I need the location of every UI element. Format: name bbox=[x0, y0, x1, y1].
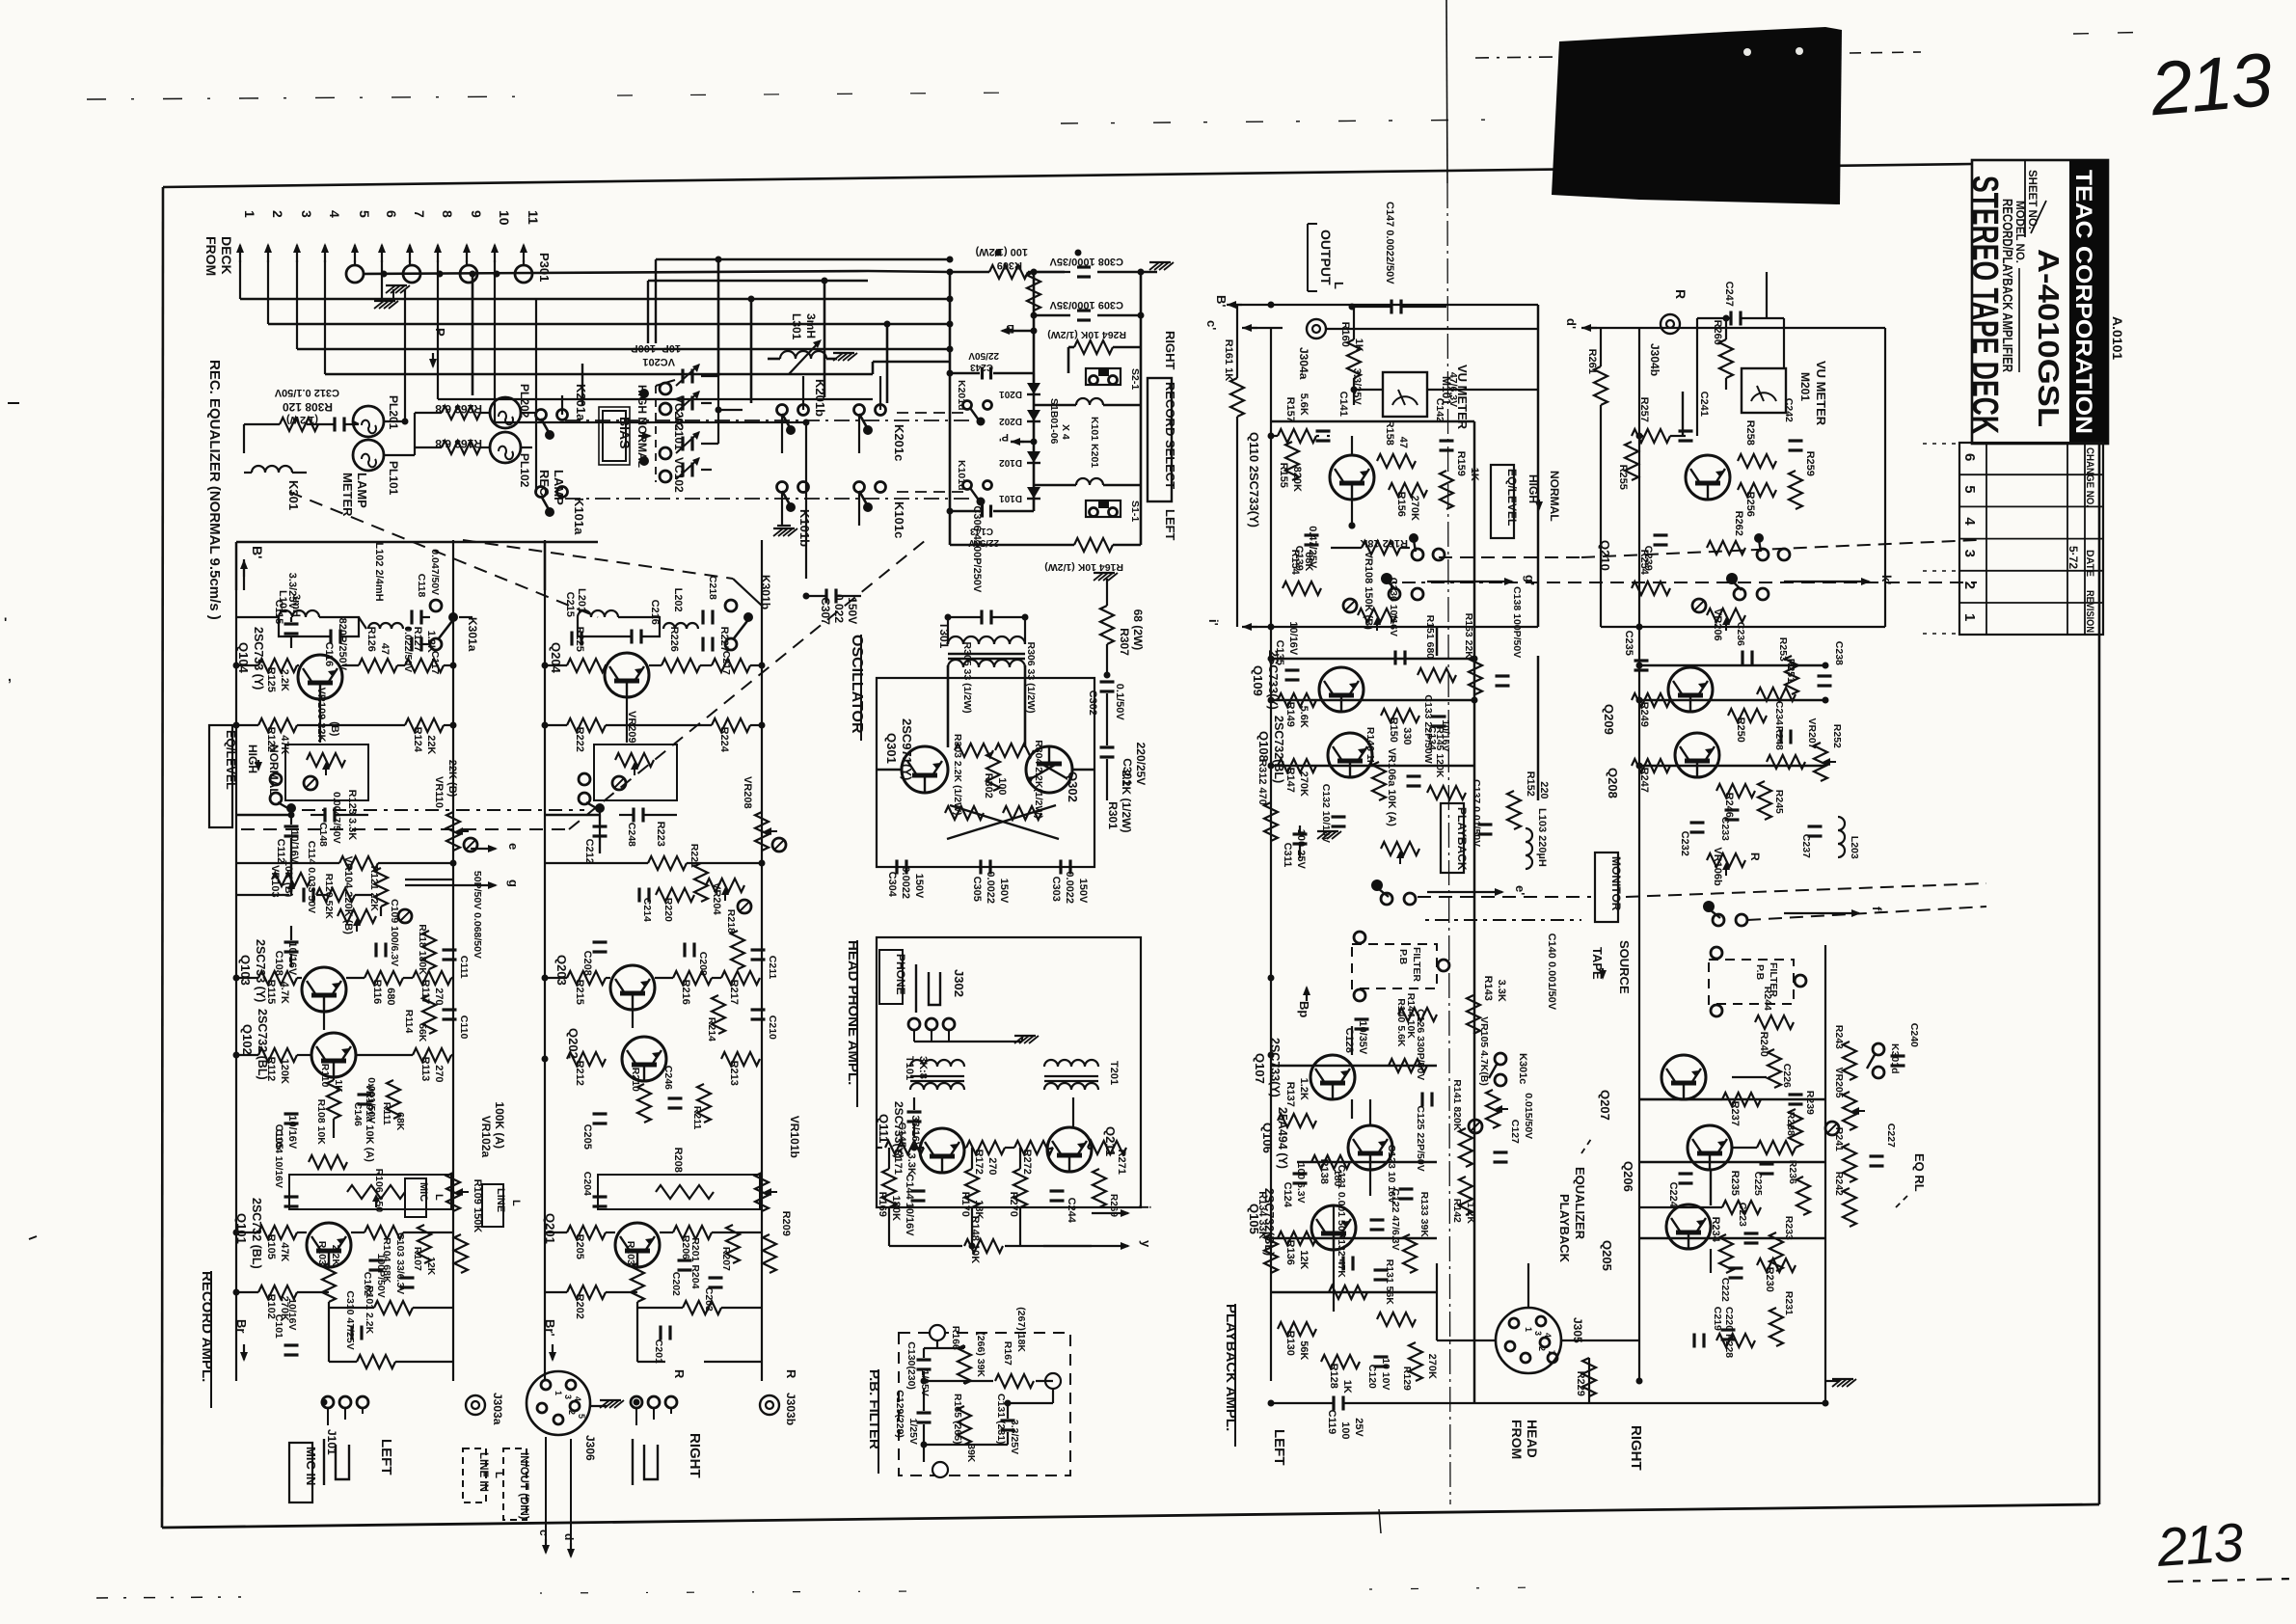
wire rec lamp wiring bbox=[415, 413, 536, 455]
resistor R226 bbox=[662, 627, 700, 672]
svg-text:R257: R257 bbox=[1638, 397, 1650, 422]
svg-text:C136 10/16V: C136 10/16V bbox=[1388, 578, 1399, 636]
svg-text:R111: R111 bbox=[381, 1102, 392, 1125]
svg-text:c: c bbox=[537, 1529, 551, 1536]
svg-text:1: 1 bbox=[554, 1391, 563, 1395]
node Br arrow record bbox=[234, 1319, 249, 1362]
transistor Q210 bbox=[1598, 455, 1730, 571]
svg-text:C247: C247 bbox=[1723, 282, 1735, 307]
resistor R106 150 bbox=[365, 1169, 403, 1239]
capacitor C148 0.0047/50V bbox=[311, 792, 368, 847]
potentiometer VR204 bbox=[706, 879, 751, 916]
node e arrow bbox=[471, 843, 521, 853]
label 50P/50V 0.068/50V bbox=[472, 871, 483, 959]
svg-text:R143: R143 bbox=[1482, 976, 1494, 1001]
svg-text:C226: C226 bbox=[1781, 1064, 1793, 1088]
svg-text:VR102a: VR102a bbox=[479, 1116, 493, 1158]
arrow y headphone bbox=[1043, 1240, 1153, 1250]
label HIGH NORMAL record eq bbox=[246, 744, 281, 796]
resistor R271 bbox=[1088, 1141, 1127, 1175]
resistor R301 2.2K(1/2W) bbox=[1106, 771, 1133, 833]
svg-text:1.2K: 1.2K bbox=[1298, 1078, 1310, 1100]
svg-text:3.3/25V: 3.3/25V bbox=[1009, 1420, 1020, 1454]
svg-text:5: 5 bbox=[1961, 485, 1978, 493]
svg-text:R230: R230 bbox=[1764, 1267, 1775, 1292]
resistor R137 1.2K bbox=[1278, 1078, 1316, 1127]
capacitor C115 3.3/25V bbox=[273, 573, 299, 648]
label RECORD AMPL. bbox=[199, 1271, 215, 1408]
node P' arrow bbox=[999, 431, 1038, 446]
wire bus stems extra bbox=[716, 257, 891, 404]
resistor R209 bbox=[763, 1211, 792, 1273]
oscillator circuit box bbox=[877, 678, 1094, 867]
ground oscillator top bbox=[1094, 573, 1118, 581]
capacitor C128 10/35V bbox=[1343, 1019, 1369, 1055]
wire record rail ch2-left bbox=[544, 540, 546, 1381]
capacitor C125 22P/50V bbox=[1399, 1105, 1427, 1199]
svg-text:R203: R203 bbox=[625, 1241, 636, 1265]
svg-text:R202: R202 bbox=[574, 1294, 585, 1319]
wire frame bottom border bbox=[162, 1504, 2099, 1528]
svg-text:3.3/25V: 3.3/25V bbox=[1351, 368, 1363, 406]
wire lamp connections bbox=[353, 289, 415, 455]
capacitor C224 bbox=[1667, 1174, 1693, 1208]
PB filter dashed box playback R bbox=[1709, 947, 1806, 1016]
dashed eq level cross bbox=[291, 809, 584, 811]
svg-text:': ' bbox=[4, 614, 7, 630]
svg-text:C133 22P/50W: C133 22P/50W bbox=[1422, 694, 1434, 763]
relay contact K201a bbox=[536, 384, 589, 440]
resistor R144 10K bbox=[1398, 993, 1437, 1040]
svg-text:11: 11 bbox=[526, 210, 541, 225]
svg-text:R233: R233 bbox=[1783, 1216, 1795, 1240]
resistor R205 bbox=[567, 1226, 606, 1259]
capacitor C204 bbox=[581, 1172, 608, 1206]
svg-text:100: 100 bbox=[996, 777, 1008, 795]
svg-text:47K: 47K bbox=[279, 1242, 290, 1261]
svg-text:1: 1 bbox=[242, 210, 257, 218]
resistor R148 10K bbox=[964, 1216, 1003, 1264]
svg-text:120K: 120K bbox=[279, 1059, 290, 1084]
resistor R152 220 bbox=[1507, 771, 1550, 829]
ground at pin 6 bbox=[374, 289, 398, 309]
switch eq playback R bbox=[1754, 533, 1790, 560]
resistor R104 68K bbox=[374, 1237, 413, 1314]
svg-text:B': B' bbox=[1214, 295, 1229, 307]
svg-text:P.B: P.B bbox=[1754, 964, 1766, 981]
resistor R140 5.6K bbox=[1389, 998, 1427, 1072]
wire record select rails bbox=[868, 271, 1141, 545]
capacitor C311 100 25V bbox=[1282, 826, 1341, 869]
svg-text:C241: C241 bbox=[1698, 392, 1710, 417]
label IN/OUT DIN boxed dashed bbox=[503, 1448, 529, 1520]
svg-text:68 (2W): 68 (2W) bbox=[1131, 609, 1145, 651]
svg-text:R220: R220 bbox=[662, 898, 674, 922]
node d arrow bbox=[562, 1533, 576, 1558]
svg-text:VU METER: VU METER bbox=[1814, 361, 1828, 426]
svg-text:j: j bbox=[1139, 1204, 1153, 1209]
capacitor C220 R228 bbox=[1694, 1307, 1755, 1358]
capacitor C142 47/6.3V bbox=[1434, 372, 1459, 450]
svg-text:22K: 22K bbox=[425, 735, 437, 754]
svg-text:J304a: J304a bbox=[1297, 347, 1310, 380]
svg-text:R166: R166 bbox=[950, 1326, 961, 1350]
svg-text:CHANGE NO.: CHANGE NO. bbox=[2084, 447, 2095, 507]
svg-text:5·72: 5·72 bbox=[2066, 546, 2080, 569]
svg-text:C132 10/16V: C132 10/16V bbox=[1320, 784, 1332, 843]
ground L301 bbox=[833, 353, 857, 361]
capacitor C243 22/50V bbox=[947, 350, 1035, 380]
svg-text:C311: C311 bbox=[1282, 843, 1293, 868]
wire record rail ch2-mid bbox=[761, 540, 763, 1381]
switch eq level record R bbox=[579, 773, 605, 813]
capacitor C232 bbox=[1679, 823, 1705, 856]
svg-text:C115: C115 bbox=[273, 600, 284, 625]
svg-text:R258: R258 bbox=[1744, 420, 1756, 446]
svg-text:R242: R242 bbox=[1833, 1172, 1845, 1196]
label PLAYBACK AMPL. bbox=[1223, 1304, 1239, 1447]
wire playback right rail bbox=[1638, 328, 1640, 1381]
svg-text:270K: 270K bbox=[1409, 496, 1420, 521]
svg-text:0.0022: 0.0022 bbox=[1064, 871, 1075, 904]
svg-text:2SC733(Y): 2SC733(Y) bbox=[1268, 1038, 1282, 1097]
ground K101b bbox=[773, 526, 797, 536]
capacitor C301 220/25V bbox=[1100, 693, 1148, 800]
svg-text:D201: D201 bbox=[999, 389, 1022, 399]
svg-text:9: 9 bbox=[469, 210, 484, 218]
svg-text:R163 6.8: R163 6.8 bbox=[435, 437, 482, 450]
svg-text:REC. EQUALIZER (NORMAL 9.5cm/s: REC. EQUALIZER (NORMAL 9.5cm/s ) bbox=[206, 360, 223, 620]
svg-text:T201: T201 bbox=[1108, 1061, 1120, 1085]
svg-text:VR208: VR208 bbox=[742, 776, 753, 809]
svg-text:R302: R302 bbox=[983, 773, 994, 798]
svg-text:R127: R127 bbox=[412, 627, 423, 652]
svg-text:C144 10/16V: C144 10/16V bbox=[904, 1174, 915, 1236]
resistor R131 56K bbox=[1377, 1259, 1416, 1326]
inductor K201 coil bbox=[1034, 398, 1141, 468]
PB filter dashed box playback L bbox=[1352, 932, 1449, 1001]
wire frame right border bbox=[2098, 160, 2101, 1504]
svg-text:D101: D101 bbox=[999, 493, 1022, 503]
svg-text:C242: C242 bbox=[1783, 398, 1795, 422]
switch K301b contacts bbox=[725, 575, 772, 650]
label METER LAMP bbox=[340, 473, 369, 517]
wire bus E y388 bbox=[325, 362, 950, 374]
resistor R312 470 bbox=[1256, 759, 1278, 841]
svg-text:Q201: Q201 bbox=[543, 1213, 557, 1244]
wire playback L row 1205 bbox=[1297, 1161, 1437, 1163]
svg-text:2: 2 bbox=[270, 210, 285, 218]
svg-text:C220 R228: C220 R228 bbox=[1723, 1307, 1735, 1358]
svg-text:J101: J101 bbox=[325, 1429, 338, 1455]
dashed relay linkage record select bbox=[897, 413, 964, 492]
transformer T301 bbox=[937, 622, 1025, 667]
jack symbol right bbox=[633, 1439, 658, 1485]
jack J304a bbox=[1297, 319, 1538, 380]
svg-text:g': g' bbox=[1523, 575, 1537, 585]
svg-text:1K: 1K bbox=[1353, 338, 1364, 352]
resistor R164 10K (1/2W) bbox=[950, 538, 1141, 573]
resistor R238 bbox=[1757, 1112, 1796, 1154]
resistor R229 bbox=[1575, 1358, 1596, 1403]
capacitor C102 100P/50V bbox=[362, 1254, 387, 1298]
capacitor C133 22P/50W bbox=[1407, 694, 1435, 786]
wire Q104 row bbox=[236, 665, 453, 743]
svg-text:VC201: VC201 bbox=[642, 356, 675, 367]
svg-text:1K: 1K bbox=[333, 1079, 344, 1093]
resistor R118 180K bbox=[417, 924, 436, 975]
capacitor C244 bbox=[1050, 1191, 1078, 1224]
capacitor C247 bbox=[1697, 282, 1784, 326]
arrow j headphone bbox=[1092, 1204, 1153, 1217]
svg-text:Q110 2SC733(Y): Q110 2SC733(Y) bbox=[1247, 432, 1261, 528]
relay contact K201b bbox=[777, 379, 828, 435]
svg-text:P: P bbox=[433, 328, 447, 337]
wire relay column bbox=[536, 395, 562, 492]
svg-text:4.7K: 4.7K bbox=[279, 982, 290, 1004]
DIN ground stub bbox=[590, 1400, 624, 1408]
svg-text:C312 0.1/50V: C312 0.1/50V bbox=[274, 387, 339, 398]
svg-text:Q106: Q106 bbox=[1260, 1123, 1275, 1153]
dashed linkage playback eq bbox=[1439, 540, 1977, 557]
resistor R160 1K bbox=[1339, 307, 1364, 390]
svg-text:S1B01-06: S1B01-06 bbox=[1048, 398, 1060, 444]
svg-text:D202: D202 bbox=[999, 416, 1022, 426]
resistor R224 bbox=[712, 718, 750, 753]
svg-text:g: g bbox=[506, 880, 521, 887]
svg-text:PHONE: PHONE bbox=[894, 954, 907, 995]
resistor R239 bbox=[1789, 1091, 1816, 1148]
wire bottom scan artifact dashes bbox=[96, 1509, 1543, 1598]
svg-text:R158: R158 bbox=[1384, 420, 1395, 446]
title block A.0101 bbox=[2110, 316, 2125, 360]
svg-text:B': B' bbox=[250, 546, 265, 558]
svg-text:R171: R171 bbox=[892, 1150, 904, 1175]
svg-text:R301: R301 bbox=[1106, 801, 1120, 829]
svg-text:VR105 4.7K(B): VR105 4.7K(B) bbox=[1478, 1016, 1490, 1086]
svg-text:R306 33 (1/2W): R306 33 (1/2W) bbox=[1025, 642, 1037, 714]
label LEFT record select bbox=[1163, 509, 1177, 541]
svg-text:150V: 150V bbox=[1077, 879, 1089, 904]
capacitor C129(229) 1/25V bbox=[894, 1390, 932, 1445]
transistor Q301 2SC971(Y) bbox=[884, 718, 948, 793]
transistor Q203 bbox=[554, 955, 655, 1010]
transistor Q204 bbox=[549, 642, 649, 697]
svg-text:R106 150: R106 150 bbox=[373, 1169, 385, 1213]
label HEAD PHONE AMPL. bbox=[845, 940, 861, 1107]
svg-text:5: 5 bbox=[577, 1414, 586, 1419]
resistor R306 33(1/2W) bbox=[995, 642, 1037, 758]
wire playback left rail bbox=[1270, 328, 1272, 1381]
wire playback R row 1140 bbox=[1639, 1098, 1825, 1100]
svg-text:C114 0.033 50V: C114 0.033 50V bbox=[306, 841, 317, 913]
resistor R258 bbox=[1738, 420, 1776, 468]
svg-text:D102: D102 bbox=[999, 457, 1022, 468]
svg-text:C246: C246 bbox=[662, 1066, 674, 1090]
label OUTPUT dashed bracket bbox=[1308, 224, 1346, 291]
svg-text:C309 1000/35V: C309 1000/35V bbox=[1049, 299, 1123, 311]
wire dashes under bottom 213 bbox=[2168, 1579, 2293, 1582]
title block SHEET NO bbox=[2025, 160, 2046, 237]
svg-text:EQUALIZER: EQUALIZER bbox=[1573, 1167, 1587, 1240]
svg-text:K101d: K101d bbox=[956, 460, 967, 491]
capacitor C131(231) 3.3/25V bbox=[995, 1394, 1020, 1454]
diode D201 bbox=[999, 373, 1040, 399]
wire playback L row 726 bbox=[1271, 699, 1474, 701]
lamp PL201 bbox=[353, 395, 400, 437]
resistor R130 56K bbox=[1278, 1322, 1316, 1360]
svg-text:3: 3 bbox=[1961, 550, 1978, 557]
capacitor C120 10 10V bbox=[1366, 1357, 1391, 1390]
svg-text:3: 3 bbox=[563, 1394, 573, 1399]
svg-text:56K: 56K bbox=[417, 1023, 428, 1042]
svg-text:R271: R271 bbox=[1116, 1150, 1127, 1175]
black redaction rectangle bbox=[1552, 27, 1842, 204]
switch tape monitor L bbox=[1381, 573, 1423, 600]
svg-text:J302: J302 bbox=[952, 969, 966, 997]
label HIGH NORMAL playback bbox=[1526, 471, 1561, 522]
lamp PL202 bbox=[490, 384, 531, 428]
svg-text:0.0047/50V: 0.0047/50V bbox=[331, 792, 342, 844]
svg-text:P': P' bbox=[999, 431, 1009, 443]
wire relay linkage dash line lower bbox=[565, 498, 974, 500]
svg-text:c': c' bbox=[1204, 320, 1219, 330]
svg-text:RECORD SELECT: RECORD SELECT bbox=[1163, 382, 1177, 489]
svg-text:R263 6.8: R263 6.8 bbox=[435, 402, 482, 416]
capacitor C222 bbox=[1719, 1268, 1743, 1302]
svg-text:BIAS: BIAS bbox=[617, 417, 633, 448]
svg-text:22/50V: 22/50V bbox=[968, 350, 999, 361]
svg-text:C210: C210 bbox=[767, 1015, 778, 1040]
potentiometer VR205 bbox=[1825, 1068, 1865, 1136]
resistor R227 bbox=[712, 627, 750, 672]
svg-text:Q107: Q107 bbox=[1253, 1053, 1267, 1084]
svg-text:VR104 220K (B): VR104 220K (B) bbox=[342, 856, 354, 935]
svg-text:2SC733 (Y): 2SC733 (Y) bbox=[252, 627, 265, 690]
svg-text:0.1/50V: 0.1/50V bbox=[1114, 684, 1125, 721]
title block MODEL NO bbox=[2013, 201, 2025, 372]
svg-text:3: 3 bbox=[1533, 1331, 1543, 1336]
svg-text:50P/50V 0.068/50V: 50P/50V 0.068/50V bbox=[472, 871, 483, 959]
svg-text:C308 1000/35V: C308 1000/35V bbox=[1049, 256, 1123, 267]
svg-text:VR206: VR206 bbox=[1712, 609, 1723, 641]
svg-text:R153 22K: R153 22K bbox=[1463, 613, 1474, 660]
potentiometer VR106a 10K(A) bbox=[1381, 748, 1419, 864]
resistor R233 bbox=[1769, 1216, 1795, 1271]
transistor Q101 2SC732(BL) bbox=[234, 1198, 351, 1269]
svg-text:PLAYBACK AMPL.: PLAYBACK AMPL. bbox=[1223, 1304, 1239, 1431]
capacitor C123 10 16V bbox=[1370, 1145, 1398, 1230]
svg-text:R112: R112 bbox=[265, 1057, 277, 1082]
svg-text:R137: R137 bbox=[1284, 1082, 1296, 1107]
svg-text:7: 7 bbox=[1547, 1350, 1556, 1355]
connector pin stems bbox=[240, 260, 524, 374]
headphone amp box bbox=[877, 937, 1141, 1207]
resistor R236 bbox=[1787, 1160, 1810, 1215]
svg-text:MIC: MIC bbox=[418, 1182, 429, 1202]
svg-text:R211: R211 bbox=[691, 1106, 703, 1130]
svg-text:4: 4 bbox=[1961, 517, 1978, 526]
diode D202 bbox=[999, 410, 1040, 426]
capacitor C140 0.001/50V bbox=[1546, 934, 1557, 1011]
svg-text:3mH: 3mH bbox=[804, 313, 818, 338]
jack J303b bbox=[760, 1393, 797, 1425]
label RIGHT record select bbox=[1163, 331, 1177, 370]
resistor R141 820K bbox=[1451, 1079, 1472, 1167]
wire bus C y336 bbox=[268, 321, 954, 328]
resistor R249 bbox=[1632, 693, 1670, 727]
resistor R245 bbox=[1758, 781, 1785, 820]
svg-text:R126: R126 bbox=[365, 627, 377, 652]
svg-text:C127: C127 bbox=[1509, 1120, 1521, 1144]
svg-text:Q210: Q210 bbox=[1598, 540, 1612, 571]
svg-text:2.2K (1/2W): 2.2K (1/2W) bbox=[1120, 771, 1133, 833]
resistor R117 270 bbox=[413, 971, 451, 1006]
svg-text:R270: R270 bbox=[1008, 1192, 1019, 1217]
svg-text:C225: C225 bbox=[1752, 1172, 1764, 1196]
revision table grid bbox=[1959, 443, 2103, 635]
capacitor C103 33/6.3V bbox=[394, 1232, 415, 1294]
svg-text:R172: R172 bbox=[973, 1150, 985, 1175]
svg-text:R308 120: R308 120 bbox=[283, 400, 333, 414]
label LINE boxed bbox=[482, 1184, 522, 1227]
resistor R108 10K bbox=[309, 1099, 347, 1169]
svg-text:C129(229): C129(229) bbox=[894, 1390, 905, 1438]
svg-text:C224: C224 bbox=[1667, 1182, 1679, 1208]
wire frame left border bbox=[162, 187, 163, 1528]
capacitor C132 10/16V bbox=[1320, 784, 1346, 843]
svg-text:K301c: K301c bbox=[1517, 1053, 1528, 1084]
svg-text:S2-1: S2-1 bbox=[1129, 368, 1141, 390]
lamp PL102 bbox=[490, 432, 531, 488]
revision table row numbers bbox=[1961, 453, 1978, 621]
ground playback right bbox=[1825, 1379, 1856, 1387]
svg-text:213: 213 bbox=[2154, 1511, 2245, 1578]
contact dots bias switches bbox=[639, 389, 649, 466]
svg-text:Q204: Q204 bbox=[549, 642, 563, 674]
label LINE IN boxed dashed bbox=[463, 1448, 504, 1502]
svg-text:B: B bbox=[1006, 322, 1014, 336]
resistor R272 bbox=[1014, 1141, 1053, 1175]
capacitor C241 bbox=[1679, 392, 1711, 441]
label EQ RL bbox=[1896, 1153, 1927, 1207]
capacitor C248 bbox=[619, 808, 677, 848]
svg-text:C126 330P/50V: C126 330P/50V bbox=[1415, 1009, 1426, 1080]
svg-text:R213: R213 bbox=[728, 1061, 740, 1086]
resistor R134 33K bbox=[1256, 1191, 1278, 1273]
svg-text:R157: R157 bbox=[1284, 397, 1296, 422]
switch K304d bbox=[1867, 1043, 1901, 1078]
resistor R156 270K bbox=[1389, 483, 1427, 521]
relay contact K201c bbox=[854, 405, 907, 462]
resistor R112 120K bbox=[258, 1048, 297, 1084]
node e' arrow bbox=[1427, 885, 1527, 896]
resistor R126 47 bbox=[359, 627, 397, 672]
svg-text:R147: R147 bbox=[1284, 768, 1296, 793]
svg-text:C204: C204 bbox=[581, 1172, 593, 1196]
svg-text:PL102: PL102 bbox=[518, 453, 531, 488]
svg-text:10/16V: 10/16V bbox=[286, 1115, 298, 1150]
capacitor C108 10/16V bbox=[273, 941, 299, 976]
svg-text:VR204: VR204 bbox=[711, 882, 722, 916]
resistor R121 22K bbox=[368, 866, 388, 912]
svg-text:2SC733 (Y): 2SC733 (Y) bbox=[254, 939, 267, 1002]
resistor R172 270 bbox=[966, 1141, 1005, 1176]
wire record rail left bbox=[235, 590, 237, 1381]
trimmer capacitor VC102 bbox=[660, 457, 700, 493]
svg-text:3: 3 bbox=[299, 210, 314, 218]
svg-text:6: 6 bbox=[384, 210, 399, 218]
